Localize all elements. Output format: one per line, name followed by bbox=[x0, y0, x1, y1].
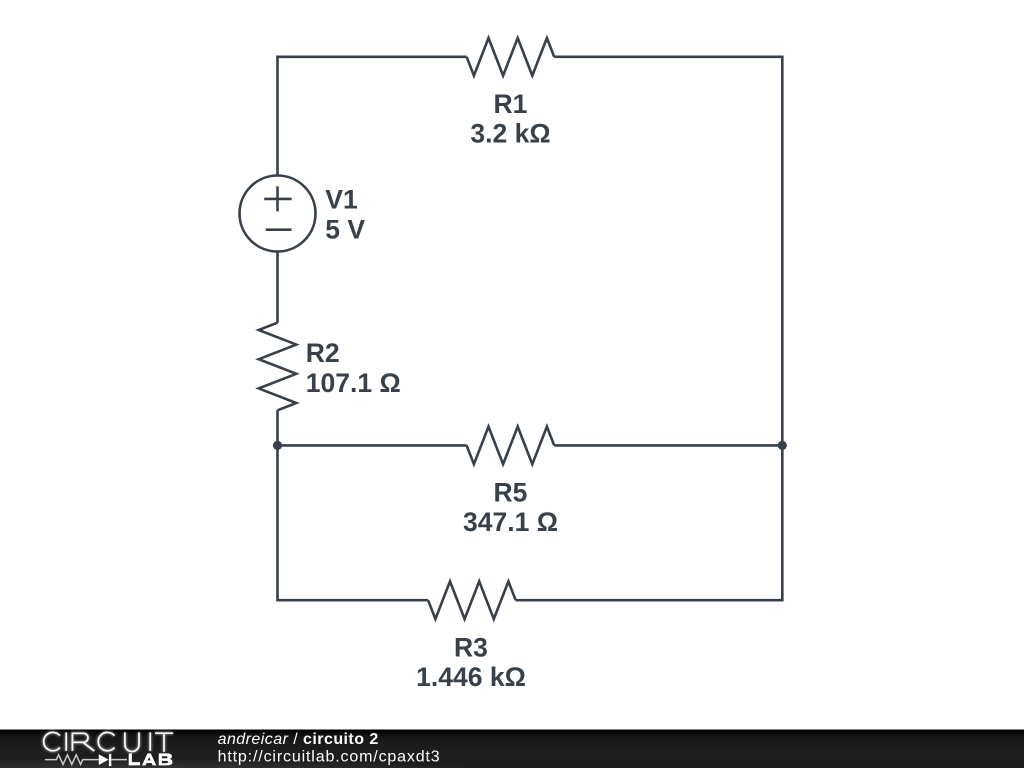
svg-text:5 V: 5 V bbox=[325, 215, 365, 245]
wire V1 bottom to R2 top bbox=[276, 252, 279, 323]
svg-text:http://circuitlab.com/cpaxdt3: http://circuitlab.com/cpaxdt3 bbox=[218, 748, 441, 765]
logo letter I bbox=[149, 732, 151, 751]
logo letter R bbox=[72, 733, 94, 751]
logo letter C bbox=[98, 732, 114, 750]
svg-text:3.2 kΩ: 3.2 kΩ bbox=[470, 118, 550, 148]
logo letter C bbox=[44, 732, 60, 750]
CircuitLab logo word CIRCUIT glow bbox=[44, 732, 173, 752]
wire top-left corner (V1 top to R1 left lead) bbox=[278, 57, 467, 176]
CircuitLab logo word CIRCUIT bbox=[44, 732, 173, 752]
svg-text:R1: R1 bbox=[494, 89, 528, 119]
resistor R3 bbox=[428, 581, 516, 619]
wire top-right + right side + bottom-right corner bbox=[516, 57, 783, 600]
node B junction dot bbox=[778, 441, 787, 450]
svg-text:andreicar / circuito 2: andreicar / circuito 2 bbox=[218, 731, 379, 748]
resistor R2 bbox=[259, 323, 297, 411]
svg-text:R2: R2 bbox=[306, 338, 340, 368]
resistor R5 bbox=[467, 427, 555, 465]
logo letter U bbox=[125, 732, 139, 751]
svg-text:1.446 kΩ: 1.446 kΩ bbox=[416, 662, 526, 692]
wire bottom-left corner (R3 left lead to R2 bottom) bbox=[278, 410, 429, 600]
resistor R1 bbox=[467, 38, 555, 76]
logo resistor squiggle bbox=[45, 755, 99, 765]
logo word LAB bbox=[129, 753, 173, 765]
wire middle-right (R5 to node B) bbox=[554, 444, 782, 447]
V1 minus sign bbox=[266, 228, 292, 231]
logo letter A bbox=[142, 753, 156, 765]
svg-text:107.1 Ω: 107.1 Ω bbox=[306, 368, 401, 398]
logo letter L bbox=[129, 753, 140, 765]
node A junction dot bbox=[273, 441, 282, 450]
logo letter T bbox=[155, 733, 173, 752]
svg-text:V1: V1 bbox=[325, 184, 357, 214]
logo letter I bbox=[65, 732, 67, 751]
logo letter B bbox=[159, 753, 173, 765]
logo diode cathode bar bbox=[109, 754, 111, 766]
voltage source V1 body bbox=[240, 176, 316, 252]
wire middle-left (node A to R5) bbox=[278, 444, 467, 447]
logo diode wire bbox=[111, 759, 127, 761]
logo diode triangle bbox=[99, 754, 109, 765]
svg-text:R5: R5 bbox=[494, 478, 528, 508]
svg-text:R3: R3 bbox=[454, 633, 488, 663]
footer bar bbox=[0, 730, 1024, 768]
V1 plus sign bbox=[264, 186, 291, 211]
svg-text:347.1 Ω: 347.1 Ω bbox=[463, 507, 558, 537]
